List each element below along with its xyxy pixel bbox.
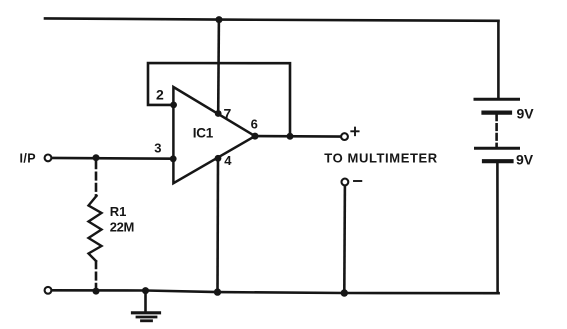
svg-text:I/P: I/P bbox=[20, 152, 36, 166]
svg-text:9V: 9V bbox=[517, 105, 535, 121]
svg-text:22M: 22M bbox=[110, 220, 134, 235]
svg-text:4: 4 bbox=[224, 153, 232, 168]
svg-text:3: 3 bbox=[154, 140, 161, 155]
svg-text:R1: R1 bbox=[110, 204, 127, 219]
svg-text:9V: 9V bbox=[516, 152, 534, 168]
svg-text:TO MULTIMETER: TO MULTIMETER bbox=[324, 150, 437, 165]
svg-text:6: 6 bbox=[251, 117, 258, 132]
svg-text:2: 2 bbox=[156, 87, 164, 103]
svg-text:IC1: IC1 bbox=[193, 126, 214, 141]
svg-text:7: 7 bbox=[224, 106, 232, 122]
